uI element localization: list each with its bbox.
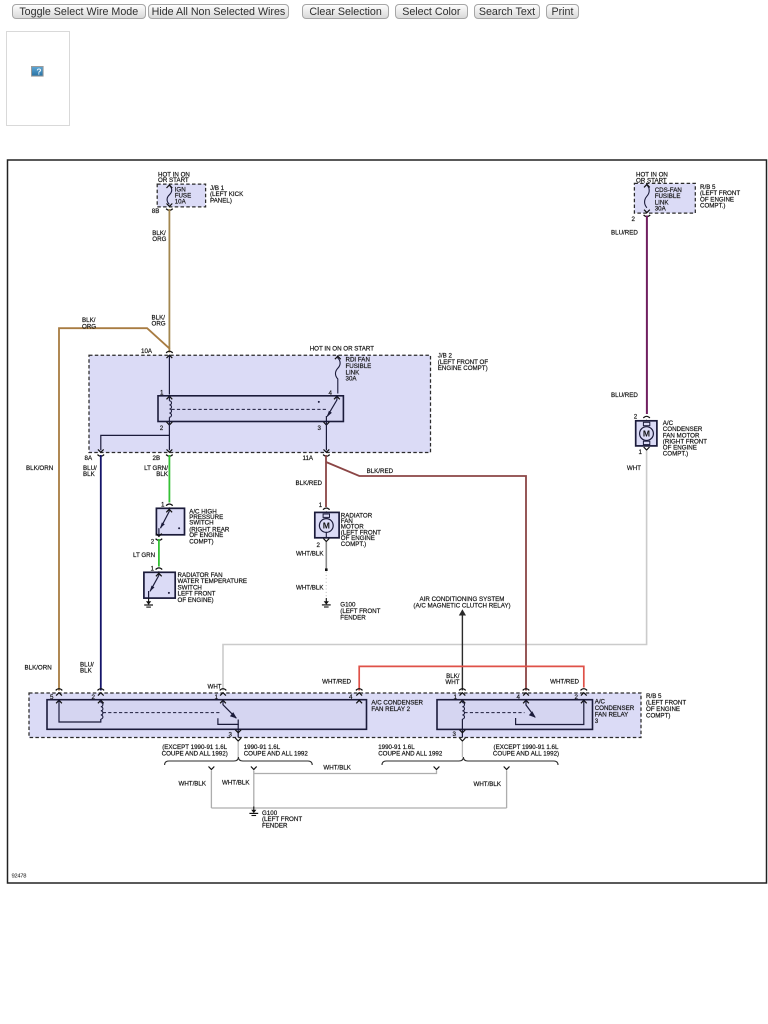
svg-text:4: 4 — [349, 694, 353, 701]
label 1990-91 1.6L COUPE AND ALL 1992 [right] — [378, 744, 443, 757]
svg-text:COMPT.): COMPT.) — [663, 451, 688, 458]
toolbar button: Hide All Non Selected Wires — [148, 4, 290, 20]
pin 5 of relay 2 — [56, 689, 63, 696]
node AIR CONDITIONING SYSTEM (A/C MAGNETIC CLUTCH RELAY) — [413, 596, 510, 610]
svg-text:3: 3 — [318, 425, 322, 432]
relay 2 internal: pin5 link to coil — [59, 700, 101, 722]
label R/B 5 (LEFT FRONT OF ENGINE COMPT.) — [700, 184, 740, 210]
wire stub from relay 2 pin 3 to brace — [237, 742, 239, 758]
svg-text:ORG: ORG — [82, 323, 96, 330]
fusible link RDI FAN 30A — [335, 355, 340, 393]
pin 4 of relay 3 — [523, 689, 530, 696]
relay coil in J/B2 — [169, 401, 171, 417]
pin at CDS-FAN top — [644, 184, 650, 187]
wire BLK/ORG from IGN fuse to J/B2 pin 10A — [168, 209, 170, 353]
connector chevron below left brace half 1 — [209, 767, 215, 770]
contact dot in J/B2 relay — [318, 401, 320, 403]
motor M1 A/C condenser fan motor box — [636, 421, 657, 446]
label (EXCEPT 1990-91 1.6L COUPE AND ALL 1992) [right] — [493, 744, 559, 757]
label A/C CONDENSER FAN MOTOR (RIGHT FRONT OF ENGINE COMPT.) — [663, 420, 707, 458]
wire BLK/RED branch from 11A to relay 3 pin 4 — [326, 462, 526, 691]
wire WHT/BLK from second chevron down to G100 — [253, 771, 255, 809]
svg-text:2B: 2B — [153, 455, 161, 462]
pin 3 of relay 2 — [235, 730, 241, 733]
svg-text:BLK/RED: BLK/RED — [296, 480, 323, 487]
svg-text:ORG: ORG — [152, 236, 166, 243]
svg-text:8A: 8A — [85, 455, 93, 462]
svg-text:M: M — [323, 521, 330, 531]
pin 3 of J/B2 relay — [324, 422, 330, 425]
relay K2 inner box (A/C condenser fan relay 2) — [47, 700, 367, 730]
value label IGN FUSE 10A — [175, 186, 192, 205]
svg-text:BLK/ORN: BLK/ORN — [25, 665, 52, 672]
switch S2 radiator fan water temperature switch box — [144, 572, 175, 598]
motor M2 radiator fan motor box — [315, 512, 339, 537]
relay 3 switch arm pin4 to pin2 — [516, 700, 584, 725]
pin 2 of relay 2 — [98, 689, 105, 696]
svg-text:PANEL): PANEL) — [210, 197, 232, 204]
brace under relay 2 pin 3 — [165, 757, 313, 765]
wire label BLK/ORG (upper) — [152, 230, 166, 243]
svg-text:WHT/RED: WHT/RED — [550, 679, 579, 686]
svg-text:BLK/ORN: BLK/ORN — [26, 465, 53, 472]
connector chevron below left brace half 2 — [251, 767, 257, 770]
svg-text:WHT: WHT — [208, 683, 222, 690]
pin 1 of J/B2 relay — [167, 396, 173, 399]
broken image icon — [31, 66, 44, 77]
svg-text:2: 2 — [575, 694, 579, 701]
svg-text:COUPE AND ALL 1992: COUPE AND ALL 1992 — [244, 750, 309, 757]
ground G100 (mid) — [322, 598, 331, 607]
pin 1 of radiator fan motor — [323, 508, 330, 515]
wire WHT/BLK faint continuation to ground G100 — [325, 572, 327, 600]
wire LT GRN/BLK from 2B to pressure switch — [168, 455, 170, 503]
svg-text:1: 1 — [319, 502, 323, 509]
pin 1 of condenser fan motor — [644, 447, 650, 450]
svg-text:WHT/RED: WHT/RED — [322, 679, 351, 686]
svg-text:FENDER: FENDER — [340, 614, 366, 621]
junction block J/B 2 dashed box — [89, 355, 431, 452]
svg-text:4: 4 — [517, 694, 521, 701]
svg-text:10A: 10A — [175, 199, 187, 206]
svg-text:WHT/BLK: WHT/BLK — [296, 584, 324, 591]
ground at temperature switch — [144, 598, 153, 607]
svg-text:8B: 8B — [152, 208, 160, 215]
relay K3 inner box (A/C condenser fan relay 3) — [437, 700, 593, 730]
svg-text:2: 2 — [160, 425, 164, 432]
pin 2 of radiator fan motor — [323, 539, 329, 542]
svg-text:3: 3 — [595, 718, 599, 725]
pin 11A at J/B2 bottom — [323, 449, 330, 456]
relay block R/B 5 dashed box (CDS-FAN fusible link) — [634, 183, 695, 213]
pin 1 of radiator fan water temperature switch — [156, 568, 163, 575]
svg-text:COUPE AND ALL 1992): COUPE AND ALL 1992) — [162, 750, 228, 757]
pin 2 of J/B2 relay — [167, 422, 173, 425]
svg-text:FAN RELAY: FAN RELAY — [595, 712, 629, 719]
label A/C HIGH PRESSURE SWITCH (RIGHT REAR OF ENGINE COMPT) — [189, 509, 230, 546]
contact dot S1 — [178, 527, 180, 529]
node HOT IN ON OR START (R/B 5 top right) — [636, 172, 668, 185]
svg-text:3: 3 — [453, 731, 457, 738]
svg-text:COMPT): COMPT) — [189, 539, 213, 546]
svg-text:30A: 30A — [655, 206, 667, 213]
svg-text:2: 2 — [151, 538, 155, 545]
connector chevron below right brace half 2 — [504, 767, 510, 770]
pin 4 of relay 2 — [356, 689, 363, 696]
diagram frame border — [8, 160, 767, 883]
fusible link CDS-FAN 30A — [645, 185, 650, 208]
brace under relay 3 pin 3 — [382, 757, 558, 765]
pin at J/B1 top — [167, 185, 173, 188]
label 1990-91 1.6L COUPE AND ALL 1992 [left] — [244, 744, 309, 757]
wire label BLK/ORG (right at junction) — [152, 315, 166, 328]
svg-text:2: 2 — [632, 216, 636, 223]
wire inside J/B2 from relay pin 2 to 2B and branch to 8A — [101, 422, 170, 451]
svg-text:WHT/BLK: WHT/BLK — [222, 780, 250, 787]
pin 1 of A/C high pressure switch — [166, 504, 173, 511]
wire WHT from condenser fan motor to relay 2 pin 1 — [223, 451, 647, 691]
relay 3 coil — [461, 700, 463, 703]
svg-text:92478: 92478 — [12, 874, 27, 880]
svg-text:M: M — [643, 429, 650, 439]
pin 2B at J/B2 bottom — [166, 449, 173, 456]
pin 3 of relay 3 — [460, 730, 466, 733]
contact dot S2 — [168, 592, 170, 594]
pin 1 of relay 2 — [220, 689, 227, 696]
connector chevron below right brace half 1 — [434, 767, 440, 770]
toolbar button: Toggle Select Wire Mode — [12, 4, 146, 20]
svg-text:BLU/RED: BLU/RED — [611, 392, 638, 399]
value label CDS-FAN FUSIBLE LINK 30A — [655, 187, 682, 213]
svg-text:COMPT): COMPT) — [646, 712, 670, 719]
label R/B 5 (LEFT FRONT OF ENGINE COMPT) — [646, 693, 686, 720]
pin 8B at J/B1 bottom — [166, 204, 173, 211]
svg-text:FAN RELAY 2: FAN RELAY 2 — [371, 706, 410, 713]
pin 10A at J/B2 top — [166, 351, 173, 358]
wire WHT/RED from relay 2 pin 4 to relay 3 pin 2 — [359, 666, 584, 690]
pin 8A at J/B2 bottom — [98, 449, 105, 456]
svg-text:1: 1 — [160, 389, 164, 396]
label G100 (LEFT FRONT FENDER — [340, 602, 380, 622]
relay dashed actuating line in J/B2 — [172, 408, 327, 410]
fuse IGN FUSE 10A — [167, 186, 172, 205]
wire BLK/RED from 11A down to radiator fan motor — [325, 455, 327, 507]
svg-text:ORG: ORG — [152, 321, 166, 328]
relay 2 dashed actuating line — [103, 712, 222, 714]
pin 2 of A/C high pressure switch — [156, 534, 163, 541]
relay 2 coil — [100, 700, 102, 703]
wire BLK/ORN branch: junction to left run down to relay 2 pin 5 — [59, 328, 170, 690]
svg-text:2: 2 — [634, 414, 638, 421]
wire BLU/RED from CDS-FAN link to condenser fan motor — [646, 216, 648, 415]
svg-text:(A/C MAGNETIC CLUTCH RELAY): (A/C MAGNETIC CLUTCH RELAY) — [413, 602, 510, 609]
pin at RDI link top — [335, 356, 341, 359]
svg-text:10A: 10A — [141, 348, 153, 355]
svg-text:3: 3 — [229, 732, 233, 739]
label RADIATOR FAN WATER TEMPERATURE SWITCH LEFT FRONT OF ENGINE) — [178, 572, 248, 604]
wire WHT/BLK from left chevron down — [210, 771, 212, 809]
wire inside J/B2 from relay pin 3 to 11A — [325, 422, 327, 451]
wire label BLK/WHT — [445, 673, 459, 686]
junction dot on WHT/BLK — [325, 568, 328, 571]
relay 2 switch arm pin1 to pin3 — [218, 700, 238, 738]
svg-text:BLK: BLK — [80, 668, 93, 675]
svg-text:COUPE AND ALL 1992): COUPE AND ALL 1992) — [493, 750, 559, 757]
svg-text:BLK/RED: BLK/RED — [367, 468, 394, 475]
label A/C CONDENSER FAN RELAY 2 — [371, 700, 423, 713]
label A/C CONDENSER FAN RELAY 3 — [595, 699, 635, 726]
wire LT GRN from pressure switch to temperature switch — [158, 539, 160, 567]
svg-text:WHT/BLK: WHT/BLK — [323, 765, 351, 772]
toolbar button: Select Color — [395, 4, 468, 20]
svg-text:WHT: WHT — [445, 679, 459, 686]
svg-text:HOT IN ON OR START: HOT IN ON OR START — [310, 346, 375, 353]
broken image placeholder box — [6, 31, 70, 126]
junction block J/B 1 dashed box — [157, 184, 205, 207]
svg-text:COUPE AND ALL 1992: COUPE AND ALL 1992 — [378, 750, 443, 757]
wire WHT/BLK horizontal lower (to G100) — [211, 807, 506, 809]
wire label BLU/BLK (lower) — [80, 661, 94, 674]
toolbar button: Print — [546, 4, 578, 20]
wire label BLU/BLK (below 8A) — [83, 465, 97, 478]
pin 2 at CDS-FAN bottom — [644, 210, 651, 217]
svg-text:WHT: WHT — [627, 465, 641, 472]
wire WHT/BLK from radiator fan motor to junction — [325, 542, 327, 570]
svg-text:5: 5 — [50, 694, 54, 701]
relay switch arm in J/B2 — [326, 396, 337, 422]
pin 1 of relay 3 — [459, 689, 466, 696]
wire inside J/B2 from 10A to relay pin 1 — [168, 355, 170, 394]
svg-text:LT GRN: LT GRN — [133, 552, 155, 559]
svg-text:OF ENGINE): OF ENGINE) — [178, 597, 214, 604]
wire BLU/BLK from 8A to relay 2 pin 2 — [100, 455, 102, 691]
svg-text:4: 4 — [329, 390, 333, 397]
value label RDI FAN FUSIBLE LINK 30A — [346, 357, 372, 383]
relay 3 dashed actuating line — [464, 712, 524, 714]
svg-text:11A: 11A — [303, 455, 314, 462]
pin 2 of condenser fan motor — [643, 416, 650, 423]
label RADIATOR FAN MOTOR (LEFT FRONT OF ENGINE COMPT.) — [341, 512, 381, 548]
label J/B 2 (LEFT FRONT OF ENGINE COMPT) — [438, 353, 489, 373]
wire stub from relay 3 pin 3 to brace — [461, 742, 463, 758]
svg-text:1: 1 — [215, 694, 219, 701]
svg-text:1: 1 — [639, 449, 643, 456]
svg-text:1: 1 — [454, 694, 458, 701]
svg-text:WHT/BLK: WHT/BLK — [178, 781, 206, 788]
wire BLK/WHT from relay 3 pin 1 up to A/C system (arrow) — [461, 614, 463, 691]
ground G100 (bottom) — [249, 807, 258, 816]
svg-text:COMPT.): COMPT.) — [341, 541, 366, 548]
toolbar button: Clear Selection — [302, 4, 389, 20]
svg-text:2: 2 — [92, 694, 96, 701]
svg-text:BLK: BLK — [156, 471, 169, 478]
svg-text:WHT/BLK: WHT/BLK — [296, 551, 324, 558]
label G100 (LEFT FRONT FENDER — [262, 810, 302, 830]
svg-text:WHT/BLK: WHT/BLK — [473, 781, 501, 788]
wire label BLK/ORG (left of branch) — [82, 317, 96, 330]
svg-text:COMPT.): COMPT.) — [700, 203, 725, 210]
toolbar button: Search Text — [474, 4, 541, 20]
switch S1 A/C high pressure switch box — [156, 508, 184, 535]
label (EXCEPT 1990-91 1.6L COUPE AND ALL 1992) [left] — [162, 744, 228, 757]
svg-text:BLU/RED: BLU/RED — [611, 230, 638, 237]
svg-text:FENDER: FENDER — [262, 823, 288, 830]
wire WHT/BLK from right chevron down — [506, 771, 508, 809]
relay block R/B 5 dashed box (bottom) — [29, 693, 641, 738]
svg-text:2: 2 — [317, 542, 321, 549]
wire label LT GRN/BLK (below 2B) — [144, 465, 169, 478]
relay inner box in J/B2 — [158, 396, 343, 422]
switch arm S2 — [149, 572, 159, 598]
svg-text:ENGINE COMPT): ENGINE COMPT) — [438, 365, 488, 372]
label J/B 1 (LEFT KICK PANEL) — [210, 185, 244, 204]
svg-text:BLK: BLK — [83, 471, 96, 478]
switch arm S1 — [159, 508, 169, 535]
pin 2 of relay 3 — [581, 689, 588, 696]
pin 4 of J/B2 relay — [334, 396, 340, 399]
wire WHT/BLK horizontal upper (to relay3 left chevron) — [254, 771, 437, 774]
svg-text:30A: 30A — [346, 376, 358, 383]
svg-text:OR START: OR START — [158, 177, 189, 184]
node HOT IN ON OR START (J/B 1) — [158, 172, 190, 184]
